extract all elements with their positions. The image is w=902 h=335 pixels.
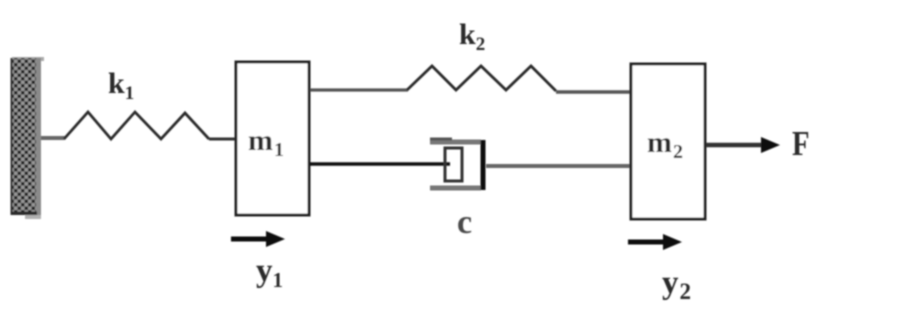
wire spring k2 to mass m2 <box>556 90 631 94</box>
label F <box>792 123 810 162</box>
svg-text:c: c <box>457 204 472 241</box>
svg-text:F: F <box>792 123 810 162</box>
label y2 <box>662 265 691 304</box>
wire spring k1 to mass m1 <box>209 138 235 141</box>
svg-text:k2: k2 <box>459 18 485 55</box>
wall (fixed support) <box>11 57 45 219</box>
label c <box>457 204 472 241</box>
label k1 <box>108 67 134 104</box>
displacement arrow y1 <box>231 231 285 247</box>
label m1 <box>248 124 284 161</box>
svg-text:k1: k1 <box>108 67 134 104</box>
label k2 <box>459 18 485 55</box>
svg-text:y2: y2 <box>662 265 691 304</box>
damper rod from m1 <box>310 162 450 166</box>
mass m2 <box>631 64 705 219</box>
spring k1 <box>64 112 209 139</box>
wire wall to spring k1 <box>41 136 65 140</box>
displacement arrow y2 <box>628 234 682 250</box>
damper cylinder <box>430 138 483 191</box>
spring k2 <box>407 66 556 91</box>
svg-text:y1: y1 <box>256 253 283 292</box>
force arrow F <box>706 137 780 153</box>
damper piston <box>445 148 462 181</box>
label y1 <box>256 253 283 292</box>
label m2 <box>647 126 683 163</box>
wire m1 to spring k2 <box>310 88 408 91</box>
damper rod to m2 <box>486 164 631 168</box>
mass m1 <box>236 62 309 215</box>
